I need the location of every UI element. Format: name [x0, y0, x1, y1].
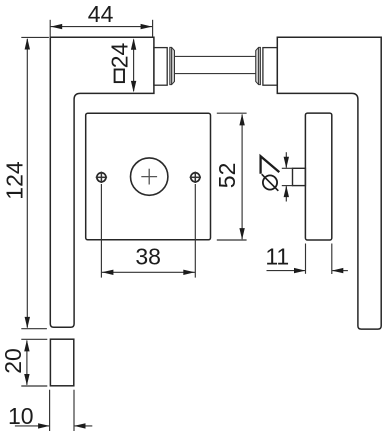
svg-text:124: 124	[1, 161, 27, 200]
center cross	[141, 176, 157, 178]
dimension diameter-7	[282, 152, 293, 201]
side rose plate	[305, 113, 331, 240]
spindle	[175, 55, 256, 57]
front rose plate	[86, 113, 211, 240]
right flange (beveled ring)	[256, 47, 261, 84]
right screw	[191, 173, 200, 182]
left flange (beveled ring)	[170, 47, 175, 84]
svg-text:24: 24	[106, 43, 132, 69]
rose center circle	[131, 158, 168, 195]
dimension 11	[267, 244, 348, 275]
svg-text:52: 52	[214, 163, 240, 189]
left collar	[154, 48, 167, 86]
fixing pin	[293, 168, 306, 185]
dimension 38	[101, 184, 195, 278]
grip section piece (10x20)	[50, 339, 73, 386]
svg-text:11: 11	[265, 244, 289, 270]
dimension square-24	[133, 40, 135, 92]
dimension 44	[50, 20, 152, 37]
svg-text:44: 44	[88, 1, 114, 27]
right handle outline (side view)	[277, 37, 381, 329]
left screw	[97, 173, 106, 182]
dimension 20	[21, 339, 47, 386]
right collar	[263, 48, 277, 86]
left handle outline (front view, L-shape lever)	[50, 37, 154, 327]
svg-text:10: 10	[8, 403, 34, 429]
svg-text:38: 38	[135, 244, 161, 270]
dimension 124	[21, 37, 49, 328]
svg-text:20: 20	[0, 348, 26, 374]
dimension 52	[217, 113, 247, 240]
dimension 10	[15, 390, 92, 431]
